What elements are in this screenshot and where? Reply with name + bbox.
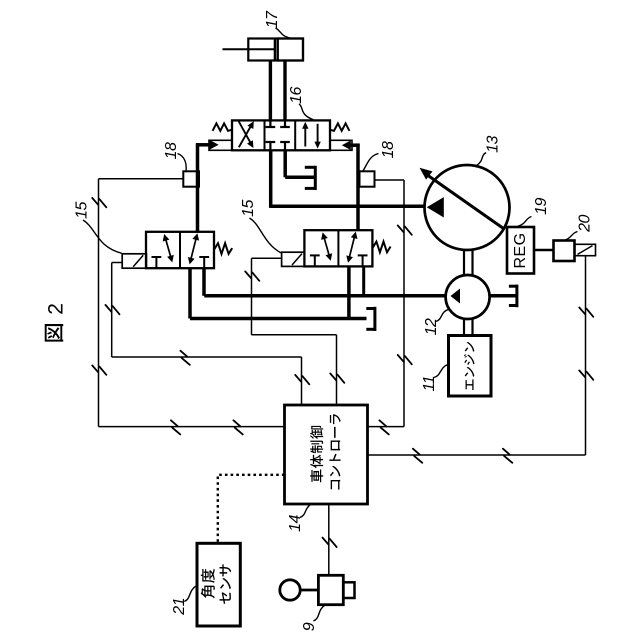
valve V15R body: [304, 230, 390, 266]
sensor box 18 left: [183, 171, 199, 186]
label 9: [301, 605, 325, 631]
wire 18L to controller: [99, 179, 285, 427]
label 15 (right): [240, 200, 281, 253]
cylinder 17: [223, 39, 304, 61]
label 16: [288, 87, 314, 120]
signal slashes 20-c: [413, 449, 422, 463]
signal slashes 18L-a: [92, 198, 106, 207]
pump P12 (pilot pump): [446, 275, 490, 319]
wire V15R supply pipe: [362, 266, 365, 295]
signal slashes V15L-c: [295, 375, 309, 384]
svg-text:11: 11: [421, 376, 438, 392]
tank symbol T3: [509, 285, 517, 308]
tank symbol T2: [366, 307, 375, 331]
svg-text:16: 16: [288, 87, 305, 104]
wire pilot supply (pump12 to valves 15): [204, 294, 445, 298]
wire pilot riser left (valve15L to U16): [196, 143, 199, 232]
signal slashes V15R-a: [245, 271, 259, 280]
svg-text:19: 19: [533, 198, 550, 215]
signal slashes 18L-c: [171, 420, 180, 434]
svg-text:17: 17: [264, 10, 281, 28]
label 18 (left): [163, 142, 186, 171]
wire pilot riser right (valve15R to U16): [356, 144, 359, 231]
signal slashes 20-b: [579, 370, 593, 379]
valve V15R pilot box: [282, 252, 305, 266]
label 15 (left): [74, 202, 122, 254]
engine box (エンジン) 11: [449, 336, 492, 397]
label 21: [171, 586, 197, 616]
wire V15L tank pipe: [188, 268, 192, 318]
valve U16 left spring: [213, 123, 232, 130]
signal slashes joystick: [323, 538, 337, 547]
wire cylinder port A pipe: [269, 61, 272, 121]
wire 18R to controller: [368, 180, 405, 427]
label 13: [477, 136, 502, 166]
wire pump12 suction: [490, 294, 517, 298]
valve V15L pilot box: [122, 254, 146, 268]
svg-text:20: 20: [577, 215, 594, 233]
wire controller to solenoid 20: [368, 256, 586, 455]
wire controller to V15R solenoid: [252, 258, 337, 405]
signal slashes 18R-a: [398, 225, 412, 234]
valve U16 right pilot box: [330, 140, 352, 150]
svg-text:REG: REG: [512, 233, 529, 269]
wire cylinder port B pipe: [283, 61, 286, 121]
joystick lever 9: [280, 575, 355, 604]
label 17: [264, 10, 291, 38]
wire joystick to controller: [328, 504, 330, 575]
svg-text:9: 9: [301, 622, 318, 631]
dotted wire angle sensor to controller: [218, 475, 285, 544]
signal slashes 18L-d: [233, 420, 242, 434]
svg-text:2: 2: [44, 303, 67, 315]
label 19: [517, 198, 550, 227]
valve U16 left pilot box: [209, 140, 232, 150]
regulator REG (19): [507, 227, 534, 274]
wire REG to 20: [534, 249, 553, 252]
valve U16 parallel-flow arrows: [302, 122, 321, 149]
svg-text:13: 13: [485, 136, 502, 153]
svg-text:18: 18: [380, 141, 397, 158]
pump P13 (variable displacement): [420, 165, 510, 250]
label 18 (right): [363, 141, 397, 171]
tank symbol T1: [305, 166, 316, 190]
svg-text:15: 15: [74, 202, 91, 219]
valve U16 body: [232, 120, 330, 150]
signal slashes 18R-b: [398, 355, 412, 364]
wire tank drain line: [190, 317, 367, 321]
wire V15L supply pipe: [202, 268, 206, 296]
pilot arrow into U16 right: [342, 140, 360, 150]
signal slashes 20-d: [503, 449, 512, 463]
shaft pump13-pump12: [464, 250, 473, 275]
svg-text:18: 18: [163, 142, 180, 159]
wire main pump line (pump13 to U16): [271, 205, 425, 209]
valve/solenoid 20: [554, 241, 596, 262]
wire U16 P-port down to pump line: [269, 150, 273, 208]
svg-text:15: 15: [240, 200, 257, 217]
signal slashes V15R-b: [330, 373, 344, 382]
wire controller to V15L solenoid: [112, 263, 302, 406]
signal slashes 18R-c: [379, 420, 388, 434]
valve U16 right spring: [330, 123, 349, 130]
wire U16 T-port drain: [285, 150, 314, 177]
signal slashes V15L-b: [180, 351, 189, 365]
angle sensor box 21 (角度センサ): [197, 543, 240, 626]
label 20: [564, 215, 593, 241]
signal slashes 20-a: [579, 307, 593, 316]
label 11: [421, 364, 448, 391]
label 14: [287, 504, 311, 531]
pilot arrow into U16 left: [196, 140, 219, 150]
figure title 図2: [44, 303, 67, 342]
shaft pump12-engine: [464, 319, 473, 336]
sensor box 18 right: [360, 171, 375, 186]
valve V15L body: [146, 232, 232, 268]
label 12: [423, 309, 449, 335]
valve U16 crossed-flow arrows: [239, 121, 254, 148]
signal slashes V15L-a: [105, 305, 119, 314]
signal slashes 18L-b: [92, 365, 106, 374]
valve U16 center T ports: [266, 120, 290, 150]
wire V15R tank pipe: [347, 266, 351, 318]
controller box 14 (車体制御コントローラ): [285, 405, 368, 504]
